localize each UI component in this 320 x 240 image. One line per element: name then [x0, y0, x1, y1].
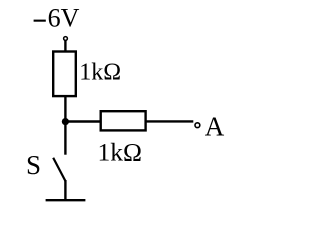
svg-text:6V: 6V — [48, 4, 80, 33]
svg-text:1kΩ: 1kΩ — [79, 59, 121, 85]
svg-text:1kΩ: 1kΩ — [98, 138, 142, 167]
svg-text:A: A — [205, 112, 225, 142]
svg-text:S: S — [26, 150, 41, 180]
